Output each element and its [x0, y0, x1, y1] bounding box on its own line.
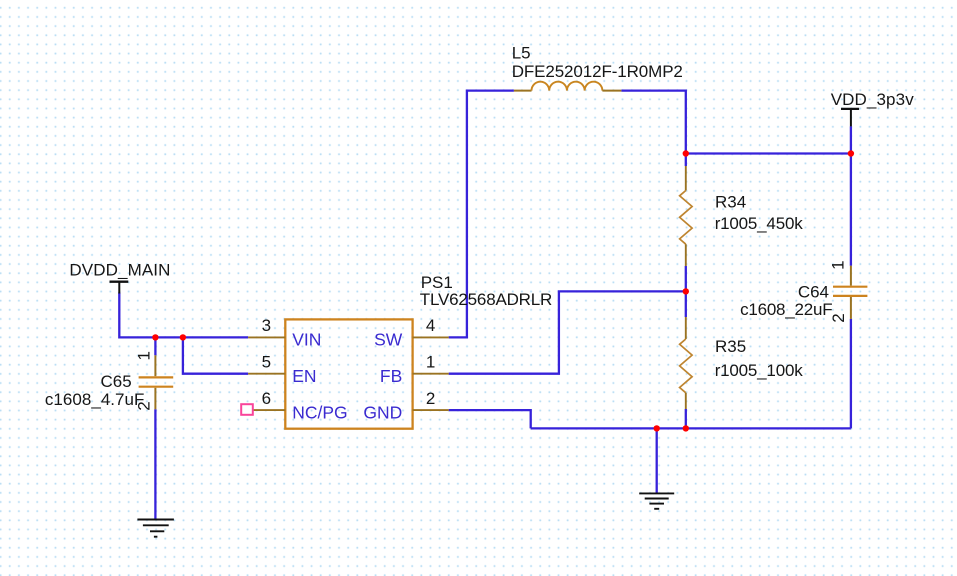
- power symbol DVDD_MAIN: [110, 282, 129, 294]
- op-amp U1 PS1 TLV62568ADRLR body: [285, 319, 412, 428]
- svg-text:r1005_100k: r1005_100k: [715, 361, 804, 380]
- pin 6 NC/PG stub: [248, 409, 285, 411]
- junction node EN/VIN: [180, 334, 186, 340]
- junction node bus/R35: [683, 425, 689, 431]
- pin 5 EN stub: [248, 373, 285, 375]
- pin 2 GND stub: [413, 409, 449, 411]
- svg-text:TLV62568ADRLR: TLV62568ADRLR: [420, 290, 553, 309]
- wire bus to middle ground: [656, 428, 658, 493]
- svg-text:NC/PG: NC/PG: [292, 402, 347, 422]
- wire VDD_3p3v stem: [850, 126, 852, 153]
- wire ground bus: [531, 427, 851, 429]
- no-connect marker pin 6: [241, 404, 253, 415]
- svg-text:3: 3: [262, 316, 271, 335]
- wire SW to L5 left: [449, 91, 514, 338]
- wire VDD rail: [686, 152, 851, 154]
- svg-text:DVDD_MAIN: DVDD_MAIN: [69, 261, 170, 280]
- svg-text:1: 1: [829, 260, 848, 269]
- wire GND pin to bus: [449, 410, 531, 428]
- svg-text:2: 2: [426, 389, 435, 408]
- svg-text:5: 5: [262, 352, 271, 371]
- svg-text:1: 1: [426, 352, 435, 371]
- svg-text:FB: FB: [380, 366, 402, 386]
- svg-text:DFE252012F-1R0MP2: DFE252012F-1R0MP2: [512, 62, 683, 81]
- junction node bus/ground: [654, 425, 660, 431]
- svg-text:1: 1: [135, 351, 154, 360]
- svg-text:6: 6: [262, 389, 271, 408]
- wire C65 bottom to ground: [154, 409, 156, 519]
- svg-text:R35: R35: [715, 337, 746, 356]
- svg-text:r1005_450k: r1005_450k: [715, 214, 804, 233]
- resistor R34: [680, 166, 693, 266]
- svg-text:C65: C65: [101, 372, 132, 391]
- wire R35 bottom to bus: [685, 409, 687, 428]
- resistor R35: [680, 317, 693, 409]
- junction node L5/R34/rail: [683, 150, 689, 156]
- svg-text:R34: R34: [715, 192, 746, 211]
- svg-text:4: 4: [426, 316, 435, 335]
- ground middle: [639, 493, 674, 508]
- capacitor C64: [833, 266, 867, 319]
- pin 3 VIN stub: [248, 336, 285, 338]
- wire DVDD_MAIN stem to VIN rail: [119, 293, 248, 338]
- junction node C65/VIN: [152, 334, 158, 340]
- inductor L5: [514, 82, 622, 91]
- wire VDD rail down to C64: [850, 154, 852, 266]
- svg-text:L5: L5: [512, 44, 531, 63]
- svg-text:c1608_22uF: c1608_22uF: [740, 300, 833, 319]
- junction node VDD/C64: [848, 150, 854, 156]
- wire R34 bottom / R35 top node: [685, 266, 687, 317]
- pin 4 SW stub: [413, 336, 449, 338]
- pin 1 FB stub: [413, 373, 449, 375]
- wire L5 right down to R34: [621, 91, 685, 166]
- wire C65 top drop: [154, 337, 156, 355]
- capacitor C65: [139, 355, 174, 409]
- ground left: [137, 520, 174, 537]
- svg-text:C64: C64: [798, 283, 829, 302]
- svg-text:c1608_4.7uF: c1608_4.7uF: [45, 390, 144, 409]
- wire EN branch: [183, 337, 248, 373]
- junction node FB divider: [683, 288, 689, 294]
- svg-text:VIN: VIN: [292, 330, 321, 350]
- svg-text:VDD_3p3v: VDD_3p3v: [831, 90, 915, 109]
- svg-text:SW: SW: [374, 330, 403, 350]
- wire C64 bottom to bus: [850, 319, 852, 429]
- svg-text:EN: EN: [292, 366, 316, 386]
- svg-text:GND: GND: [363, 402, 402, 422]
- wire FB to divider node: [449, 291, 686, 373]
- power symbol VDD_3p3v: [841, 109, 859, 127]
